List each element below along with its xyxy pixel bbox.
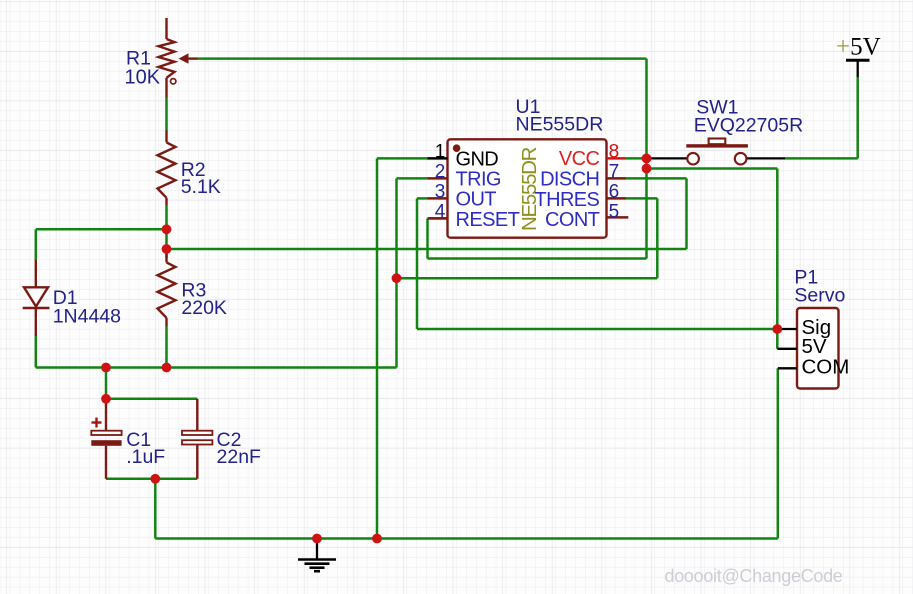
wire: R2 to R1 vertical — [165, 98, 168, 132]
junction dot1 VCC/switch — [642, 154, 652, 164]
junction dot R3/DISCH — [162, 244, 172, 254]
wire: bottom rail y367.5 D1 to TRIG — [36, 366, 397, 369]
wire: pin4 green lead — [428, 217, 449, 220]
wire: caps bottom horizontal — [106, 478, 197, 481]
resistor R1 (pot) — [159, 18, 198, 98]
op-amp U1 NE555DR body — [448, 139, 607, 237]
svg-text:THRES: THRES — [535, 189, 600, 211]
svg-text:6: 6 — [609, 181, 620, 202]
wire: RESET vertical to pin4 — [426, 218, 429, 258]
wire: DISCH pin7 to R2R3 junction — [626, 177, 687, 180]
capacitor C2 — [182, 399, 212, 479]
junction dot R2/D1 — [162, 224, 172, 234]
power +5V symbol — [846, 59, 870, 62]
svg-text:Servo: Servo — [794, 285, 845, 307]
junction dot C1/C2 top — [101, 394, 111, 404]
svg-text:NE555DR: NE555DR — [516, 114, 604, 136]
svg-text:COM: COM — [802, 356, 850, 379]
svg-text:RESET: RESET — [456, 209, 520, 231]
wire: D1 top horizontal y229.3 — [36, 228, 167, 231]
resistor R2 — [158, 131, 176, 205]
junction dot2 VCC/5V — [642, 164, 652, 174]
wire: R2 bottom to dots — [165, 205, 168, 258]
pin 3 stub — [428, 197, 448, 200]
junction dot C1/C2 bottom — [150, 474, 160, 484]
resistor R3 — [158, 250, 176, 326]
svg-text:VCC: VCC — [559, 148, 600, 170]
wire: switch right to +5V — [746, 157, 785, 159]
svg-text:CONT: CONT — [545, 209, 600, 231]
svg-text:22nF: 22nF — [217, 446, 262, 468]
switch SW1 — [686, 139, 748, 165]
ground symbol — [298, 539, 336, 572]
wire: black dot1 to switch left — [647, 157, 688, 159]
svg-text:5V: 5V — [802, 335, 827, 358]
pin 8 stub — [607, 157, 627, 160]
svg-text:220K: 220K — [181, 297, 227, 319]
svg-text:EVQ22705R: EVQ22705R — [694, 114, 804, 136]
diode D1 — [23, 260, 50, 336]
pin 4 stub — [428, 217, 448, 220]
wire: GND pin1 down to bottom rail — [377, 157, 428, 160]
svg-text:+5V: +5V — [836, 34, 881, 61]
pin 6 stub — [607, 197, 627, 200]
wire: OUT pin3 to P1 Sig — [417, 197, 428, 200]
svg-text:2: 2 — [435, 161, 446, 182]
wire: pin8 green segment — [626, 157, 647, 160]
svg-text:TRIG: TRIG — [456, 169, 501, 191]
junction dot rail/caps — [101, 363, 111, 373]
svg-text:5: 5 — [609, 201, 620, 222]
wire: R3 bottom — [165, 326, 168, 368]
junction dot TRIG/THRES — [392, 273, 402, 283]
svg-text:8: 8 — [609, 141, 620, 162]
junction dot GND rail — [372, 534, 382, 544]
wire: THRES pin6 to TRIG dot — [626, 197, 657, 200]
svg-text:1: 1 — [435, 141, 446, 162]
capacitor C1 — [91, 399, 121, 479]
junction dot Sig — [772, 324, 782, 334]
wire: bottom ground rail — [155, 537, 778, 540]
wire: VCC vertical column x646.5 — [645, 59, 648, 259]
pin 7 stub — [607, 177, 627, 180]
svg-text:3: 3 — [435, 181, 446, 202]
P1 pin 5V stub — [777, 348, 797, 350]
pin 2 stub — [428, 177, 448, 180]
svg-text:dooooit@ChangeCode: dooooit@ChangeCode — [665, 566, 843, 586]
svg-text:10K: 10K — [125, 66, 161, 88]
connector P1 — [797, 308, 839, 389]
junction dot ground — [312, 534, 322, 544]
svg-text:GND: GND — [456, 149, 499, 171]
wire: D1 bottom vertical — [35, 336, 38, 368]
svg-text:1N4448: 1N4448 — [53, 305, 121, 327]
pin 5 stub — [607, 216, 629, 219]
junction dot rail/R3 — [162, 363, 172, 373]
wire: dot2 to P1 5V column — [647, 167, 778, 170]
svg-text:OUT: OUT — [456, 189, 497, 211]
svg-text:4: 4 — [435, 201, 446, 222]
P1 pin COM stub — [778, 367, 797, 369]
wire: TRIG pin2 down to rail — [397, 177, 428, 180]
wire: R1 wiper to VCC column — [197, 57, 647, 60]
P1 pin Sig stub — [777, 328, 797, 330]
wire: RESET horizontal y258.5 — [428, 257, 647, 260]
wire: caps top column — [105, 368, 108, 399]
svg-text:5.1K: 5.1K — [181, 176, 221, 198]
svg-text:DISCH: DISCH — [540, 169, 599, 191]
pin 1 stub — [428, 157, 448, 160]
svg-text:7: 7 — [609, 161, 620, 182]
svg-text:.1uF: .1uF — [126, 446, 165, 468]
